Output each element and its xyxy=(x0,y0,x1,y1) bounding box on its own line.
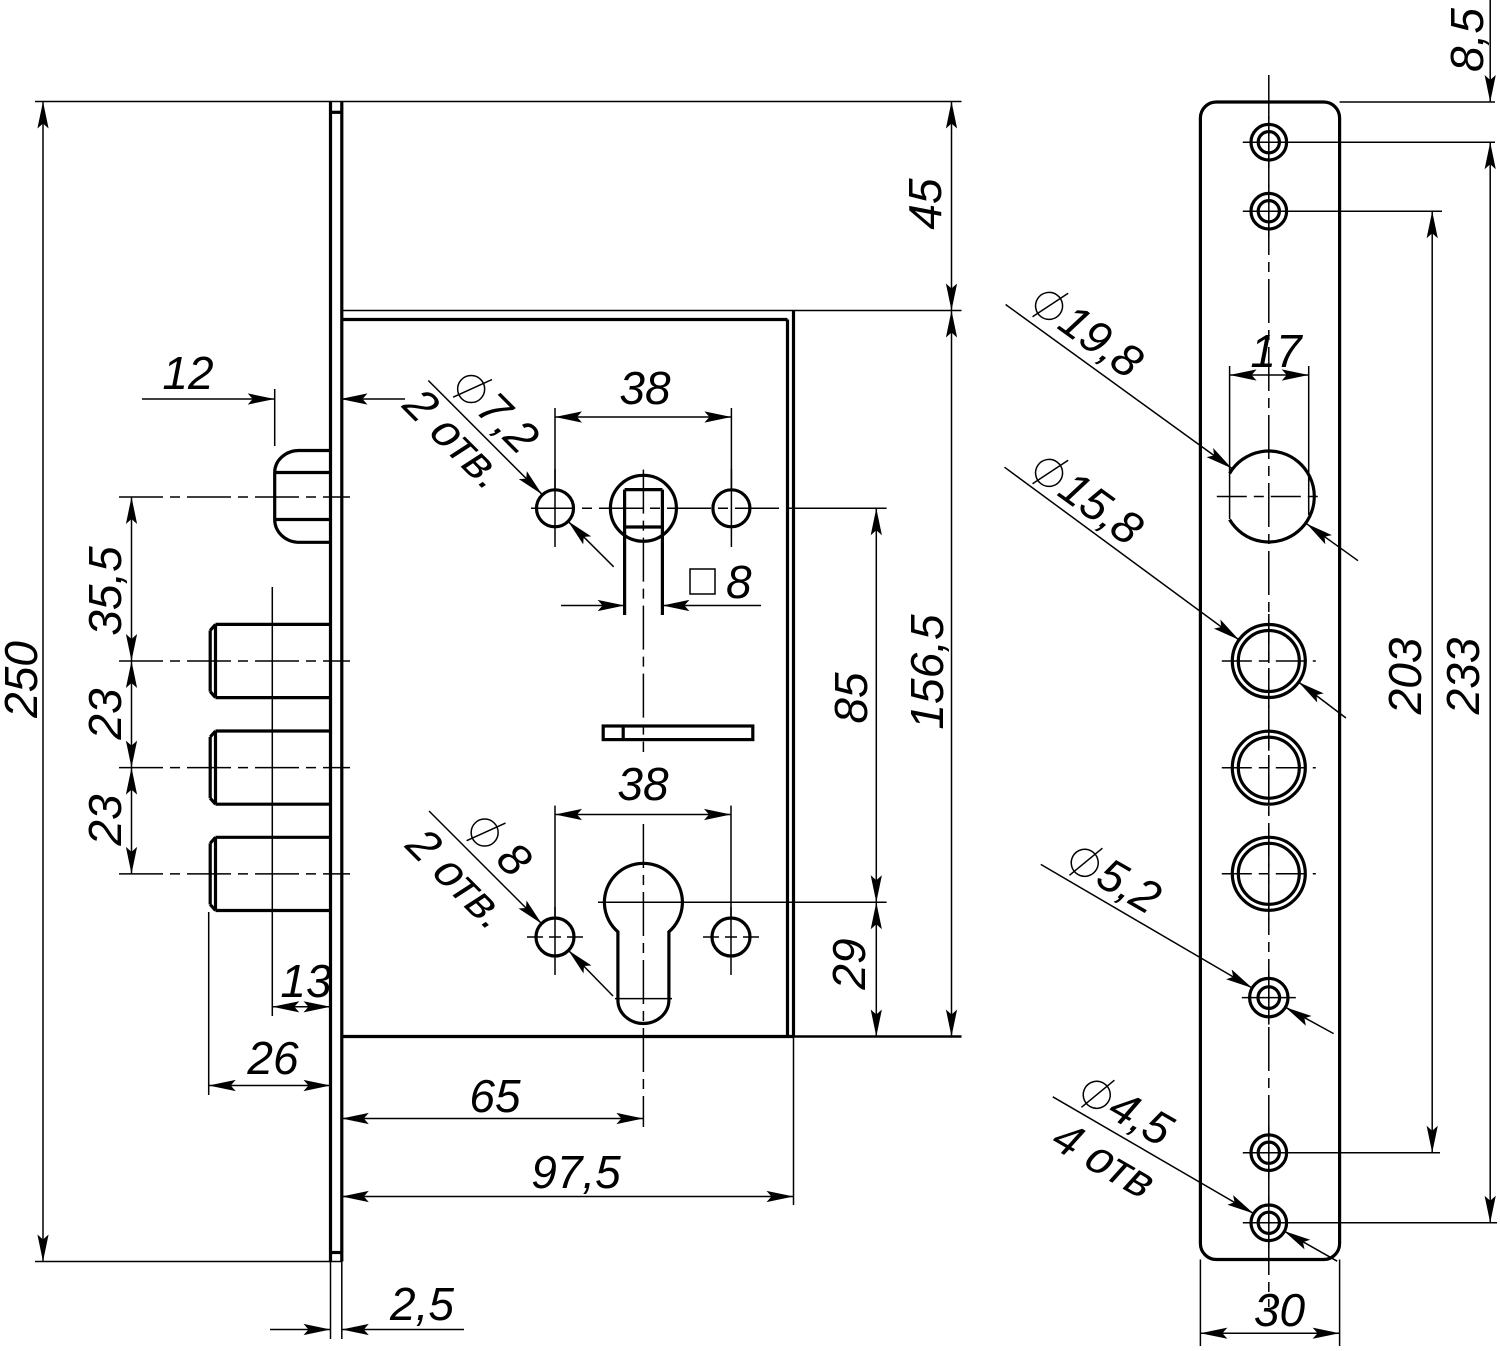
faceplate vertical centerline xyxy=(1268,75,1270,1307)
bolt hole 1 d15.8 xyxy=(1222,614,1316,708)
hole d8 left xyxy=(527,907,583,975)
svg-text:38: 38 xyxy=(619,362,671,414)
extension hole1 (8,5/233) xyxy=(1287,141,1495,143)
svg-text:17: 17 xyxy=(1250,325,1303,377)
extension hole3 (203) xyxy=(1287,1152,1440,1154)
label 4 otv xyxy=(1040,1113,1169,1206)
faceplate front view xyxy=(1200,102,1339,1260)
svg-text:35,5: 35,5 xyxy=(79,546,131,636)
svg-text:23: 23 xyxy=(79,794,131,847)
dimension 30 xyxy=(1200,1260,1339,1347)
deadbolt 3 xyxy=(210,837,330,910)
latch hole d19.8 with flat xyxy=(1217,451,1321,542)
dimension 13 xyxy=(272,587,332,1016)
dimension 23 upper xyxy=(79,661,137,768)
leader hole d5.2 xyxy=(1041,864,1334,1033)
label d5.2 xyxy=(1061,831,1170,924)
hole d7.2 right xyxy=(713,469,750,547)
cylinder horizontal centerline xyxy=(598,901,887,903)
hole d8 right xyxy=(703,907,759,975)
dimension 29 xyxy=(823,902,882,1036)
dimension 97,5 xyxy=(342,1037,794,1206)
label 2 otv upper xyxy=(391,382,521,496)
svg-text:13: 13 xyxy=(280,955,332,1007)
svg-text:23: 23 xyxy=(79,688,131,741)
svg-text:26: 26 xyxy=(246,1032,299,1084)
extension line bottom (250) xyxy=(35,1261,342,1263)
leader hole d15.8 xyxy=(1005,467,1347,718)
spindle vertical centerline xyxy=(642,470,644,752)
svg-text:38: 38 xyxy=(617,758,669,810)
dimension 203 xyxy=(1379,211,1438,1152)
screw hole 2 d4.5 xyxy=(1243,185,1295,237)
dimension 8,5 xyxy=(1441,0,1496,102)
dimension 12 xyxy=(142,347,405,446)
extension line body bottom (156.5/29) xyxy=(794,1035,962,1038)
extension hole4 (233) xyxy=(1287,1222,1497,1224)
latch centerline xyxy=(119,496,350,498)
spindle row horizontal centerline xyxy=(531,507,794,509)
dimension square-8 xyxy=(561,600,761,611)
svg-text:8,5: 8,5 xyxy=(1441,8,1493,72)
faceplate side view xyxy=(331,102,342,1262)
square spindle hole 8mm xyxy=(625,490,663,615)
deadbolt 3 centerline xyxy=(119,873,350,875)
spindle follower circle xyxy=(610,475,676,541)
leader hole d7.2 xyxy=(428,381,613,567)
dimension 23 lower xyxy=(79,768,137,874)
bolt hole 2 d15.8 xyxy=(1222,721,1316,815)
cylinder vertical centerline xyxy=(642,824,644,1127)
dimension 26 xyxy=(209,912,331,1095)
svg-text:2,5: 2,5 xyxy=(389,1278,454,1330)
svg-text:45: 45 xyxy=(899,178,951,230)
label d19.8 xyxy=(1024,275,1153,388)
dimension 85 xyxy=(794,508,887,902)
dimension 2,5 xyxy=(270,1262,464,1340)
middle bar xyxy=(603,726,753,740)
svg-text:30: 30 xyxy=(1254,1284,1306,1336)
extension plate top (8,5) xyxy=(1340,101,1495,103)
dimension 65 xyxy=(342,1070,644,1124)
extension line top (250 / 45) xyxy=(35,101,962,103)
leader hole d4.5 xyxy=(1053,1097,1337,1261)
screw hole 3 d4.5 xyxy=(1243,1127,1295,1179)
euro cylinder hole xyxy=(604,863,682,1023)
deadbolt 2 centerline xyxy=(119,767,350,769)
svg-text:8: 8 xyxy=(726,556,752,608)
dimension 35,5 xyxy=(79,497,137,661)
label d8 xyxy=(458,803,542,887)
bolt hole 3 d15.8 xyxy=(1222,827,1316,921)
label d4.5 xyxy=(1073,1063,1182,1156)
svg-text:12: 12 xyxy=(162,347,213,399)
deadbolt 2 xyxy=(210,731,330,804)
svg-text:29: 29 xyxy=(823,938,875,990)
deadbolt 1 centerline xyxy=(119,660,350,662)
label d7.2 xyxy=(445,359,549,463)
lock body case xyxy=(342,311,794,1037)
latch bolt xyxy=(275,451,331,543)
label 2 otv lower xyxy=(394,822,524,936)
svg-text:233: 233 xyxy=(1437,637,1489,715)
svg-text:156,5: 156,5 xyxy=(901,614,953,730)
svg-text:203: 203 xyxy=(1379,637,1431,715)
hole d7.2 left xyxy=(537,469,574,547)
screw hole 1 d4.5 xyxy=(1243,116,1295,168)
dimension 38 top xyxy=(555,362,731,489)
label square 8 xyxy=(690,556,752,608)
svg-text:65: 65 xyxy=(469,1070,521,1122)
svg-text:97,5: 97,5 xyxy=(531,1146,621,1198)
svg-text:250: 250 xyxy=(0,641,47,719)
extension hole2 (203) xyxy=(1287,210,1442,212)
dimension 250 xyxy=(0,102,49,1262)
leader hole d19.8 xyxy=(1006,305,1358,561)
dimension 17 xyxy=(1230,325,1309,519)
dimension 45 xyxy=(899,102,957,311)
screw hole 4 d4.5 xyxy=(1243,1197,1295,1249)
svg-text:85: 85 xyxy=(825,672,877,724)
label d15.8 xyxy=(1024,442,1153,555)
dimension 38 bottom xyxy=(555,758,731,917)
extension line body top (45/156.5) xyxy=(342,310,962,312)
dimension 233 xyxy=(1437,142,1496,1223)
leader hole d8 xyxy=(429,811,613,996)
hole d5.2 xyxy=(1242,971,1296,1025)
dimension 156,5 xyxy=(901,311,957,1037)
deadbolt 1 xyxy=(210,624,330,697)
